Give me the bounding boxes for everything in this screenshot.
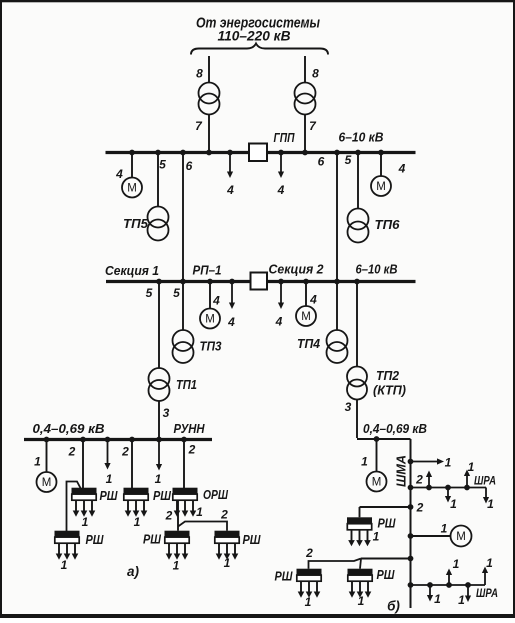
- svg-text:0,4–0,69 кВ: 0,4–0,69 кВ: [363, 422, 427, 436]
- svg-text:ШМА: ШМА: [395, 455, 409, 487]
- svg-text:6–10 кВ: 6–10 кВ: [339, 131, 384, 145]
- svg-text:1: 1: [134, 515, 141, 529]
- svg-text:ТП3: ТП3: [200, 340, 222, 354]
- svg-text:4: 4: [277, 183, 285, 197]
- svg-text:2: 2: [305, 546, 313, 560]
- svg-text:1: 1: [453, 557, 460, 571]
- svg-text:ТП2: ТП2: [376, 369, 399, 383]
- svg-text:1: 1: [155, 472, 162, 486]
- svg-text:1: 1: [34, 455, 41, 469]
- svg-text:(КТП): (КТП): [373, 384, 406, 398]
- svg-text:1: 1: [358, 594, 365, 608]
- svg-text:РШ: РШ: [153, 489, 172, 503]
- svg-text:1: 1: [434, 592, 441, 606]
- svg-text:1: 1: [361, 455, 368, 469]
- svg-text:1: 1: [196, 505, 203, 519]
- svg-text:ТП4: ТП4: [297, 337, 320, 351]
- svg-text:РШ: РШ: [243, 533, 262, 547]
- svg-text:6: 6: [186, 159, 193, 173]
- svg-text:4: 4: [398, 162, 406, 176]
- svg-text:М: М: [372, 477, 382, 489]
- svg-text:1: 1: [61, 558, 68, 572]
- svg-text:ШРА: ШРА: [476, 586, 498, 600]
- svg-text:8: 8: [312, 67, 319, 81]
- svg-text:4: 4: [115, 167, 123, 181]
- svg-text:ШРА: ШРА: [474, 474, 496, 488]
- svg-text:а): а): [127, 564, 140, 579]
- svg-text:1: 1: [468, 460, 475, 474]
- svg-text:ОРШ: ОРШ: [203, 488, 229, 502]
- svg-text:ТП5: ТП5: [123, 217, 149, 231]
- svg-text:Секция 1: Секция 1: [105, 264, 159, 278]
- svg-text:ТП6: ТП6: [375, 218, 401, 232]
- svg-text:2: 2: [415, 473, 423, 487]
- svg-text:5: 5: [146, 286, 153, 300]
- svg-text:1: 1: [458, 593, 465, 607]
- svg-text:1: 1: [224, 556, 231, 570]
- svg-text:1: 1: [82, 515, 89, 529]
- svg-text:1: 1: [450, 497, 457, 511]
- svg-text:М: М: [42, 477, 52, 489]
- svg-text:6–10 кВ: 6–10 кВ: [356, 263, 398, 277]
- svg-text:2: 2: [165, 509, 173, 523]
- svg-text:РШ: РШ: [378, 517, 397, 531]
- svg-text:М: М: [376, 181, 386, 193]
- svg-text:М: М: [456, 531, 466, 543]
- svg-text:2: 2: [68, 445, 76, 459]
- svg-text:РП–1: РП–1: [193, 264, 222, 278]
- svg-text:3: 3: [163, 406, 170, 420]
- svg-text:М: М: [301, 311, 311, 323]
- svg-text:5: 5: [345, 153, 352, 167]
- svg-text:1: 1: [106, 472, 113, 486]
- svg-text:2: 2: [220, 508, 228, 522]
- svg-text:ГПП: ГПП: [274, 131, 296, 145]
- svg-text:РШ: РШ: [143, 533, 162, 547]
- svg-text:8: 8: [196, 67, 203, 81]
- svg-text:4: 4: [227, 315, 235, 329]
- svg-text:3: 3: [345, 400, 352, 414]
- svg-text:2: 2: [188, 443, 196, 457]
- svg-text:М: М: [205, 314, 215, 326]
- svg-text:РШ: РШ: [275, 570, 294, 584]
- svg-text:110–220 кВ: 110–220 кВ: [218, 29, 291, 44]
- svg-text:1: 1: [486, 556, 493, 570]
- svg-text:2: 2: [416, 501, 424, 515]
- svg-text:2: 2: [121, 445, 129, 459]
- svg-text:РШ: РШ: [100, 489, 119, 503]
- svg-text:ТП1: ТП1: [176, 378, 197, 392]
- svg-text:М: М: [127, 183, 137, 195]
- svg-text:1: 1: [487, 497, 494, 511]
- svg-text:б): б): [387, 599, 400, 614]
- svg-text:4: 4: [309, 293, 317, 307]
- svg-text:1: 1: [441, 522, 448, 536]
- svg-text:4: 4: [275, 315, 283, 329]
- svg-text:1: 1: [373, 530, 380, 544]
- svg-text:5: 5: [173, 286, 180, 300]
- svg-text:РШ: РШ: [86, 533, 105, 547]
- svg-text:1: 1: [445, 456, 452, 470]
- svg-text:РШ: РШ: [377, 568, 396, 582]
- svg-text:1: 1: [173, 559, 180, 573]
- svg-text:0,4–0,69 кВ: 0,4–0,69 кВ: [33, 422, 105, 436]
- svg-text:Секция 2: Секция 2: [269, 263, 324, 277]
- svg-text:1: 1: [305, 595, 312, 609]
- svg-text:4: 4: [226, 183, 234, 197]
- svg-text:РУНН: РУНН: [174, 422, 206, 436]
- svg-text:4: 4: [212, 294, 220, 308]
- svg-text:5: 5: [159, 158, 166, 172]
- svg-text:6: 6: [318, 155, 325, 169]
